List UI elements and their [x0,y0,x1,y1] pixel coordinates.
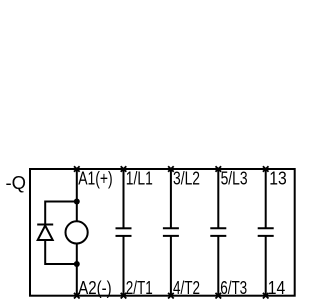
wire: diode upper lead [44,201,46,225]
contact 13-14 upper bar [258,227,274,229]
terminal marker 5/L3 (top X) [216,166,222,172]
wire: enclosure frame [30,169,295,296]
contact 5/L3-6/T3 upper bar [210,227,226,229]
wire: coil branch vertical A2 lead [76,243,78,295]
terminal marker 13 (top X) [263,166,269,172]
wire: top connector diode to coil [45,201,77,203]
svg-text:1/L1: 1/L1 [126,169,153,189]
svg-text:4/T2: 4/T2 [173,278,200,298]
contact 1/L1-2/T1 upper bar [116,227,132,229]
svg-text:-Q: -Q [6,173,27,193]
coil K1 (contactor operating coil, circle) [66,221,88,243]
wire: contact 1/L1 upper lead [123,169,125,228]
terminal label 5/L3 [221,169,248,189]
terminal label 2/T1 [126,278,153,298]
contact 3/L2-4/T2 lower bar [163,235,179,237]
wire: contact 2/T1 lower lead [123,236,125,296]
terminal marker 1/L1 (top X) [121,166,127,172]
diode V1 triangle (anode, pointing up) [38,226,53,241]
terminal marker 4/T2 (bottom X) [168,293,174,299]
svg-text:13: 13 [269,169,287,189]
terminal marker 3/L2 (top X) [168,166,174,172]
terminal marker A2 (bottom X) [74,293,80,299]
terminal label 13 [269,169,287,189]
wire: contact 4/T2 lower lead [170,236,172,296]
wire: coil branch vertical A1 lead [76,169,78,222]
wire: contact 5/L3 upper lead [217,169,219,228]
terminal label 4/T2 [173,278,200,298]
wire: auxiliary contact 14 lower lead [265,236,267,296]
contact 13-14 lower bar [258,235,274,237]
svg-text:14: 14 [268,278,286,298]
wire: auxiliary contact 13 upper lead [265,169,267,228]
terminal label 14 [268,278,286,298]
terminal label A1(+) [78,169,113,189]
node: junction dot top of coil/diode [74,199,80,205]
terminal label 3/L2 [173,169,200,189]
contact 3/L2-4/T2 upper bar [163,227,179,229]
wire: bottom connector diode to coil [45,263,77,265]
wire: diode lower lead [44,240,46,265]
svg-text:2/T1: 2/T1 [126,278,153,298]
terminal label 6/T3 [220,278,247,298]
terminal label A2(-) [78,278,112,298]
contact 1/L1-2/T1 lower bar [116,235,132,237]
svg-text:5/L3: 5/L3 [221,169,248,189]
terminal label 1/L1 [126,169,153,189]
wire: contact 3/L2 upper lead [170,169,172,228]
terminal marker A1 (top X) [74,166,80,172]
svg-text:A2(-): A2(-) [78,278,112,298]
device label -Q [6,173,27,193]
svg-text:3/L2: 3/L2 [173,169,200,189]
svg-text:6/T3: 6/T3 [220,278,247,298]
wire: contact 6/T3 lower lead [217,236,219,296]
diode V1 cathode bar [37,224,53,226]
terminal marker 6/T3 (bottom X) [216,293,222,299]
terminal marker 14 (bottom X) [263,293,269,299]
svg-text:A1(+): A1(+) [78,169,113,189]
contact 5/L3-6/T3 lower bar [210,235,226,237]
node: junction dot bottom of coil/diode [74,261,80,267]
terminal marker 2/T1 (bottom X) [121,293,127,299]
